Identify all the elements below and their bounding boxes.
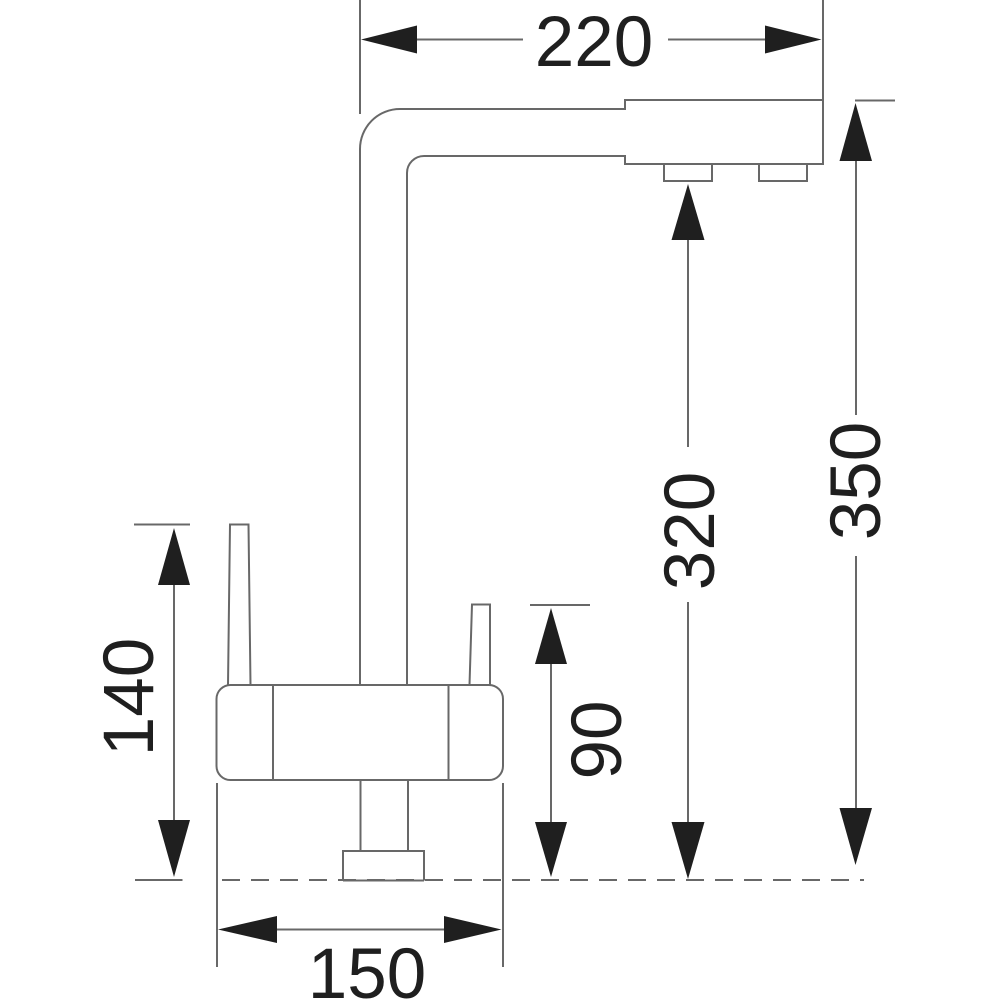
svg-text:320: 320	[651, 472, 730, 590]
svg-text:220: 220	[535, 3, 653, 82]
svg-text:150: 150	[308, 935, 426, 1000]
svg-text:350: 350	[817, 422, 896, 540]
svg-text:140: 140	[90, 638, 169, 756]
svg-text:90: 90	[558, 701, 637, 780]
